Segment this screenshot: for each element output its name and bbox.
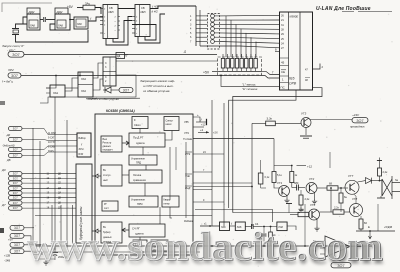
connector oval data <box>9 201 23 205</box>
wire to counters <box>88 17 103 21</box>
TxData wire <box>193 138 274 140</box>
link stub wire <box>196 19 208 21</box>
svg-text:из обмена устр-ва: из обмена устр-ва <box>143 89 170 93</box>
RxD wire <box>193 186 252 188</box>
connector XP1 start <box>2 44 25 57</box>
wire vertical <box>223 103 225 226</box>
arrow shift to in-buffer <box>122 228 129 232</box>
svg-text:Логика: Логика <box>133 173 142 177</box>
svg-text:VТ7: VТ7 <box>348 174 354 178</box>
svg-text:СВ: СВ <box>141 6 145 10</box>
wire DD3 to DD4 <box>118 8 135 10</box>
feedback wires <box>23 17 27 24</box>
svg-text:3О7: 3О7 <box>123 88 130 92</box>
svg-text:3О7: 3О7 <box>13 191 18 195</box>
svg-text:Д7: Д7 <box>1 203 6 207</box>
block in buffer <box>101 222 122 244</box>
resistor R8 0.1k <box>258 173 270 184</box>
capacitor C4 <box>252 224 254 229</box>
wire RxD chain <box>200 225 220 227</box>
wire +12 rail <box>297 165 307 167</box>
svg-text:-ДК: -ДК <box>6 134 11 137</box>
svg-text:СВ: СВ <box>109 6 113 10</box>
link stub wire <box>196 23 208 25</box>
connector oval data <box>9 176 23 180</box>
connector oval ctrl <box>9 153 23 157</box>
svg-text:3О7: 3О7 <box>13 181 18 185</box>
DD4 bottom loop <box>138 14 165 43</box>
block reg sost <box>102 201 118 211</box>
horizontal y212 <box>233 212 300 214</box>
link stub wire <box>196 41 208 43</box>
svg-text:3О7: 3О7 <box>13 138 18 142</box>
gate DD7 label box <box>116 53 125 59</box>
buffer out arrow bottom <box>92 229 101 233</box>
svg-text:Ʃ: Ʃ <box>134 118 136 122</box>
wire dd7 out right <box>116 60 218 62</box>
gate DD8.1 <box>220 222 230 231</box>
block shift register RX <box>129 224 165 237</box>
svg-text:ЗУ/2-: ЗУ/2- <box>79 148 85 151</box>
wire data <box>22 202 76 204</box>
block control PRD <box>129 155 157 165</box>
RW box <box>77 133 91 157</box>
rail x186 <box>185 142 187 218</box>
DD3 bottom loop <box>106 17 132 46</box>
IC D1 <box>280 12 313 90</box>
wire L-zapis <box>221 75 280 86</box>
cap C6 vertical <box>263 227 265 234</box>
ground VT1 <box>286 195 288 198</box>
block out data register <box>101 136 122 152</box>
svg-text:Управление: Управление <box>131 199 146 202</box>
verticals right <box>304 204 306 246</box>
resistor pack RP1 <box>218 54 262 75</box>
svg-text:ДД2: ДД2 <box>56 10 63 14</box>
diode VD1 <box>105 87 111 93</box>
svg-text:ТхЕ: ТхЕ <box>185 174 190 178</box>
svg-text:3О7: 3О7 <box>13 186 18 190</box>
svg-text:ный: ный <box>103 179 108 182</box>
gate DD1.2 box <box>55 8 70 30</box>
svg-text:+2Х: +2Х <box>213 130 218 134</box>
svg-text:+5V: +5V <box>67 5 74 9</box>
svg-text:+12: +12 <box>201 123 206 127</box>
watermark <box>26 223 384 272</box>
svg-text:3О7: 3О7 <box>13 127 18 131</box>
svg-text:ЛА3: ЛА3 <box>81 77 86 81</box>
svg-text:–24V: –24V <box>351 113 360 117</box>
annotation note <box>140 79 175 93</box>
wire vertical bus <box>60 205 62 248</box>
ground power <box>43 260 48 265</box>
ground VT2 <box>314 192 316 199</box>
gate DD1.1 <box>27 8 40 30</box>
gate DD7 pair <box>103 57 116 86</box>
wire data <box>22 173 76 175</box>
svg-text:3О7: 3О7 <box>13 172 18 176</box>
svg-text:сдвига: сдвига <box>136 141 145 145</box>
wire vertical <box>211 100 213 226</box>
gate DD1.3 <box>74 17 88 29</box>
block decoder <box>151 240 168 252</box>
wire vertical bus <box>72 205 74 244</box>
svg-text:10 ГХГ: 10 ГХГ <box>48 141 56 144</box>
resistor R13 68 <box>327 182 338 191</box>
op-amp DA1 <box>313 236 362 257</box>
svg-text:ХР2: ХР2 <box>7 68 14 72</box>
svg-text:генер: генер <box>164 203 171 206</box>
svg-text:ДД2: ДД2 <box>28 10 35 14</box>
svg-text:www.sondacite.com: www.sondacite.com <box>26 223 382 268</box>
gate DD8.3 <box>277 222 287 231</box>
svg-text:Тх Data: Тх Data <box>183 137 193 141</box>
block status register <box>101 165 122 186</box>
svg-text:Кварц: Кварц <box>164 199 171 202</box>
resistor R10 5.1k <box>272 172 283 183</box>
pin9 wire <box>193 201 224 203</box>
arrow out-reg to shift <box>122 141 129 145</box>
wire right rail x330 <box>329 152 331 168</box>
connector oval data <box>9 172 23 176</box>
wire VT8 collector up <box>354 194 357 204</box>
svg-text:ОРВ: ОРВ <box>289 82 297 86</box>
block control PRM <box>129 196 158 207</box>
out wire E <box>356 230 395 232</box>
svg-text:ИЕ5: ИЕ5 <box>141 10 147 14</box>
svg-text:3О7: 3О7 <box>13 201 18 205</box>
wire vertical bus <box>51 205 53 250</box>
connector XP3 <box>119 88 133 93</box>
svg-text:Д0: Д0 <box>1 168 6 172</box>
connector oval data <box>9 186 23 190</box>
svg-text:ПРД: ПРД <box>136 162 141 165</box>
svg-text:С: С <box>105 62 107 65</box>
wire crystal to DD1.1 <box>16 24 28 29</box>
svg-text:616: 616 <box>289 77 295 81</box>
svg-text:+2: +2 <box>200 128 204 132</box>
svg-text:-Знд(по-М): -Знд(по-М) <box>2 145 15 148</box>
block sync counter <box>132 117 148 129</box>
link stub wire <box>196 15 208 17</box>
svg-text:Управление: Управление <box>131 158 146 161</box>
svg-text:ЛА3: ЛА3 <box>53 91 58 95</box>
svg-text:ДД: ДД <box>117 55 121 58</box>
svg-text:R/W: R/W <box>79 153 84 156</box>
svg-text:3Ас: 3Ас <box>85 2 91 6</box>
resistor R17 2.2k <box>333 206 344 215</box>
svg-text:8 СХБ: 8 СХБ <box>48 146 55 149</box>
svg-text:3О7: 3О7 <box>14 234 20 238</box>
svg-text:№: № <box>395 178 398 182</box>
gate DD6 pair <box>78 72 93 97</box>
svg-text:ДВ: ДВ <box>6 159 11 162</box>
connector oval ctrl <box>9 137 23 141</box>
connector XP2 <box>2 68 21 84</box>
svg-text:проводник: проводник <box>350 125 365 129</box>
jumper link box <box>208 14 220 50</box>
ground spare <box>28 241 33 246</box>
D1 pin B stub <box>275 51 280 53</box>
block detector <box>133 240 147 252</box>
svg-text:+5v: +5v <box>8 238 13 242</box>
block quartz <box>162 196 179 207</box>
wire vertical bus <box>66 120 68 248</box>
rail y246 <box>35 245 372 247</box>
plus 2X stub <box>198 128 218 134</box>
buffer out arrow top <box>92 174 101 178</box>
wire zapusk <box>24 54 217 56</box>
svg-text:VТ1: VТ1 <box>277 181 283 185</box>
horizontal y209 <box>195 210 273 223</box>
struck label <box>86 97 140 101</box>
block compare logic <box>129 170 162 183</box>
svg-text:СЕ: СЕ <box>281 70 285 74</box>
resistor R12 2.2k <box>299 195 310 205</box>
connector oval data <box>9 196 23 200</box>
USART right wires <box>193 117 200 122</box>
block generator <box>164 117 179 131</box>
svg-text:VТ8: VТ8 <box>352 197 358 201</box>
connector -24V <box>350 113 368 129</box>
svg-text:3О7: 3О7 <box>14 243 20 247</box>
capacitor C9 200uF <box>54 246 56 252</box>
wires gates <box>46 76 56 89</box>
svg-text:45: 45 <box>281 61 285 65</box>
capacitor C5 plate <box>196 118 207 126</box>
frame edge mark <box>2 3 52 12</box>
svg-text:–24В: –24В <box>4 259 10 263</box>
title annotation <box>316 6 392 12</box>
rail x176 <box>175 147 177 170</box>
EV wire <box>193 189 212 191</box>
block wires <box>139 129 141 134</box>
svg-text:ш ОЗУ столло в вып-: ш ОЗУ столло в вып- <box>143 84 173 88</box>
svg-text:3О7: 3О7 <box>14 226 20 230</box>
resistor R5 3.3k <box>252 117 301 126</box>
link stub wire <box>196 36 208 38</box>
svg-text:М580Е: М580Е <box>290 15 299 19</box>
svg-text:ПРМ: ПРМ <box>137 203 143 206</box>
edge mark left <box>0 228 4 233</box>
USART D2 outline <box>95 114 193 255</box>
svg-text:VТ2: VТ2 <box>309 177 315 181</box>
svg-text:V55: V55 <box>184 120 189 124</box>
svg-text:11 R/W: 11 R/W <box>48 132 57 135</box>
wire vertical bus <box>32 128 34 246</box>
svg-text:ВиБор: ВиБор <box>79 137 87 140</box>
USART right pin labels <box>183 120 193 223</box>
crystal ZQ1 <box>12 29 19 35</box>
wire VT3 to -24V <box>310 119 353 121</box>
svg-text:f = 6кГц: f = 6кГц <box>2 80 13 84</box>
svg-text:9 СХГ: 9 СХГ <box>48 137 55 140</box>
buffer box BD1 <box>76 164 92 243</box>
wire VT3 down + ground <box>305 128 307 136</box>
plus rail small <box>286 203 292 205</box>
svg-text:ƒ 4/2: ƒ 4/2 <box>152 5 158 9</box>
resistor R15 2.2k top <box>377 158 388 182</box>
svg-text:3О7: 3О7 <box>12 52 20 57</box>
svg-text:Запуск счет,"2": Запуск счет,"2" <box>2 44 25 48</box>
wire XP2 main <box>21 76 280 79</box>
svg-text:RхД: RхД <box>185 186 190 190</box>
resistor R14 under VT7 <box>339 193 347 203</box>
connector oval ctrl <box>9 126 23 130</box>
svg-text:3О7: 3О7 <box>13 196 18 200</box>
svg-text:3О7: 3О7 <box>13 148 18 152</box>
data wires to D1 <box>220 14 280 17</box>
gate DD5 <box>46 85 65 97</box>
D1 pin47 wire <box>313 64 321 70</box>
rail y215 <box>35 215 212 217</box>
connector oval data <box>9 181 23 185</box>
svg-text:VТ6: VТ6 <box>310 203 316 207</box>
svg-text:ЛА3: ЛА3 <box>81 89 86 93</box>
svg-text:П RS: П RS <box>48 150 54 153</box>
resistor R16 0.5k <box>298 208 309 217</box>
svg-text:низат: низат <box>166 123 173 126</box>
vertical drops to resistor pack <box>225 16 227 57</box>
svg-text:РТS: РТS <box>185 152 190 156</box>
RTS wire <box>193 153 224 155</box>
counter DD4 <box>132 5 158 37</box>
D1 pin48 wire <box>233 88 322 213</box>
resistor R9 <box>269 232 273 241</box>
resistor R18 <box>359 219 367 229</box>
svg-text:3О7: 3О7 <box>11 74 18 78</box>
output pair transistors <box>382 176 400 199</box>
wire data <box>22 177 76 179</box>
svg-text:VТ9: VТ9 <box>184 131 189 135</box>
wire vertical bus <box>39 141 41 252</box>
svg-text:Пр.Д РГ: Пр.Д РГ <box>133 136 144 140</box>
svg-text:+12: +12 <box>307 165 312 169</box>
svg-text:VТ3: VТ3 <box>301 112 307 116</box>
svg-text:статус-: статус- <box>103 174 111 177</box>
svg-text:ПС: ПС <box>281 86 285 90</box>
svg-text:СЕхх: СЕхх <box>134 123 141 127</box>
svg-text:ЛА8: ЛА8 <box>30 24 35 28</box>
pin7 wire <box>193 171 212 173</box>
svg-text:сравнения: сравнения <box>133 179 146 182</box>
wire data <box>22 207 76 209</box>
svg-text:ЛА8: ЛА8 <box>77 23 82 26</box>
svg-text:680: 680 <box>294 181 299 185</box>
link stub wire <box>196 28 208 30</box>
svg-text:3О7: 3О7 <box>356 119 363 123</box>
svg-text:U-LAN Дле ПооВшие: U-LAN Дле ПооВшие <box>316 6 371 12</box>
wire link rows x331 <box>330 188 332 212</box>
connector oval ctrl <box>9 147 23 151</box>
block shift register TX <box>129 133 165 147</box>
svg-text:+5V: +5V <box>203 71 210 75</box>
wire pack to D1 <box>262 71 280 74</box>
counter DD3 <box>100 5 121 39</box>
svg-text:КС6380 (СМ601А): КС6380 (СМ601А) <box>106 109 135 113</box>
D1 pin ORV wire <box>229 90 296 208</box>
output pair bottom stub <box>380 196 382 198</box>
connector oval data <box>9 191 23 195</box>
gate DD8.2 <box>235 222 245 231</box>
svg-text:д 4/2: д 4/2 <box>152 10 159 14</box>
connector +12V bottom <box>331 258 351 268</box>
svg-text:+: + <box>197 113 199 117</box>
TxE wire <box>193 182 252 184</box>
rail x170 <box>169 147 171 200</box>
wire data <box>22 192 76 194</box>
resistor R1 3k <box>67 2 101 15</box>
capacitor C7 <box>297 185 299 191</box>
wire data <box>22 187 76 189</box>
wire 8th <box>200 46 280 48</box>
wire vertical <box>251 123 253 226</box>
svg-text:Д: Д <box>183 50 186 54</box>
svg-text:передатч: передатч <box>103 149 114 152</box>
rail y252 <box>37 251 200 253</box>
wire data <box>22 182 76 184</box>
svg-text:3О7: 3О7 <box>13 154 18 158</box>
wires ctrl to RW box <box>22 129 77 135</box>
link stub wire <box>196 32 208 34</box>
svg-text:З,Зк: З,Зк <box>267 117 273 121</box>
diode VD2 <box>358 181 366 182</box>
wire vertical bus <box>54 97 56 250</box>
svg-text:3О7: 3О7 <box>14 250 20 254</box>
capacitor C8 <box>35 245 37 252</box>
svg-text:"Н"-чтение: "Н"-чтение <box>242 87 258 91</box>
svg-text:С: С <box>105 76 107 79</box>
spare ovals <box>10 225 24 230</box>
connector oval data <box>9 206 23 210</box>
svg-text:ЛА8: ЛА8 <box>58 24 63 28</box>
svg-text:ИЕ5: ИЕ5 <box>109 10 115 14</box>
svg-text:+5(Е)В: +5(Е)В <box>384 225 392 229</box>
bus rail into links <box>195 6 197 46</box>
svg-text:Запрещает начало инф-: Запрещает начало инф- <box>140 79 175 83</box>
svg-text:+12В: +12В <box>4 254 10 258</box>
resistor R11 1k <box>290 172 298 183</box>
capacitor C1 <box>44 17 46 22</box>
wire data <box>22 197 76 199</box>
wire VT2 out <box>317 187 327 189</box>
wire counters to link box <box>150 6 196 9</box>
